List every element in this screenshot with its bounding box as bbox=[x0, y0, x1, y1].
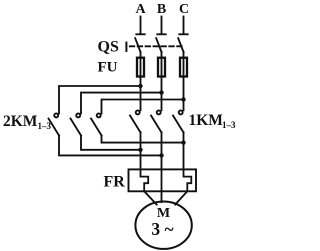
QS linkage start tick bbox=[125, 43, 127, 51]
svg-text:1KM: 1KM bbox=[189, 112, 224, 129]
wire 2KM pole 3 lower (to phase C node) bbox=[102, 136, 184, 143]
wire phase B vertical (fuse to contact) bbox=[161, 52, 163, 110]
svg-text:FU: FU bbox=[98, 60, 118, 76]
wire phase C vertical (fuse to contact) bbox=[183, 52, 185, 110]
wire branch 3 (phase C to 2KM pole 3) bbox=[102, 100, 184, 114]
contactor 1KM pole 2 fixed contact bbox=[157, 110, 161, 114]
contactor 1KM pole 2 blade bbox=[151, 116, 162, 133]
switch QS pole 3 blade bbox=[178, 38, 183, 52]
terminal tick phase B bbox=[157, 33, 165, 35]
fuse FU3 bbox=[180, 58, 187, 77]
contactor 2KM pole 1 blade bbox=[49, 119, 60, 136]
switch QS pole 2 blade bbox=[156, 38, 161, 52]
node junction 2KM2 to phase A bbox=[138, 148, 142, 152]
svg-text:B: B bbox=[157, 2, 166, 17]
contactor 1KM pole 3 fixed contact bbox=[179, 110, 183, 114]
wire motor lead middle bbox=[161, 191, 163, 202]
svg-text:1–3: 1–3 bbox=[38, 121, 52, 131]
fuse FU2 bbox=[158, 58, 165, 77]
contactor 2KM pole 3 blade bbox=[91, 119, 102, 136]
thermal relay FR box bbox=[129, 169, 197, 191]
QS dashed linkage line bbox=[130, 45, 183, 47]
wire motor lead left bbox=[144, 191, 157, 204]
svg-text:QS: QS bbox=[98, 39, 119, 56]
wire phase A lower vertical bbox=[140, 133, 142, 170]
FR heater element 3 bbox=[184, 169, 192, 191]
wire branch 1 (phase A to 2KM pole 1) bbox=[59, 86, 141, 113]
contactor 2KM pole 3 fixed contact bbox=[97, 113, 101, 117]
svg-text:FR: FR bbox=[104, 174, 126, 191]
node junction phase A tap bbox=[138, 84, 142, 88]
node junction phase C tap bbox=[181, 97, 185, 101]
contactor 2KM pole 1 fixed contact bbox=[54, 113, 58, 117]
terminal tick phase C bbox=[179, 33, 187, 35]
wire branch 2 (phase B to 2KM pole 2) bbox=[81, 93, 162, 114]
FR heater element 1 bbox=[141, 169, 149, 191]
contactor 1KM pole 3 blade bbox=[173, 116, 184, 133]
wire motor lead right bbox=[175, 191, 187, 204]
FR heater element 2 (straight) bbox=[161, 169, 163, 191]
svg-text:C: C bbox=[179, 2, 189, 17]
wire phase A lead-in bbox=[140, 17, 142, 34]
wire phase C lead-in bbox=[183, 17, 185, 34]
switch QS pole 1 blade bbox=[135, 38, 140, 52]
svg-text:3 ~: 3 ~ bbox=[151, 219, 173, 239]
svg-text:A: A bbox=[135, 2, 146, 17]
contactor 1KM pole 1 fixed contact bbox=[136, 110, 140, 114]
terminal tick phase A bbox=[136, 33, 144, 35]
wire phase A vertical (fuse to contact) bbox=[140, 52, 142, 110]
node junction 2KM3 to phase C bbox=[181, 140, 185, 144]
node junction phase B tap bbox=[159, 90, 163, 94]
wire phase B lower vertical bbox=[161, 133, 163, 170]
node junction 2KM1 to phase B bbox=[159, 153, 163, 157]
wire phase B lead-in bbox=[161, 17, 163, 34]
contactor 2KM pole 2 fixed contact bbox=[76, 113, 80, 117]
wire phase C lower vertical bbox=[183, 133, 185, 170]
wire 2KM pole 1 lower (to phase B node) bbox=[59, 136, 162, 156]
motor M circle bbox=[135, 202, 191, 249]
contactor 2KM pole 2 blade bbox=[71, 119, 82, 136]
svg-text:2KM: 2KM bbox=[3, 113, 38, 130]
svg-text:1–3: 1–3 bbox=[222, 120, 236, 130]
contactor 1KM pole 1 blade bbox=[130, 116, 141, 133]
fuse FU1 bbox=[137, 58, 144, 77]
wire 2KM pole 2 lower (to phase A node) bbox=[81, 136, 141, 150]
